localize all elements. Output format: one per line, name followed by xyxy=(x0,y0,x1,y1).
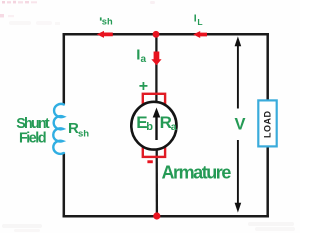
svg-text:Shunt: Shunt xyxy=(16,116,50,132)
wire top bus (63,34)-(268,34) xyxy=(63,33,269,36)
svg-text:a: a xyxy=(171,121,177,133)
svg-text:I: I xyxy=(194,13,197,25)
inductor coil Rsh (shunt field winding) xyxy=(53,104,64,154)
label minus sign xyxy=(147,160,152,163)
armature machine circle xyxy=(131,102,176,150)
wire bottom bus (63,216)-(268,216) xyxy=(63,215,269,218)
wire armature branch upper (156,34)-(156,103) xyxy=(155,34,157,104)
svg-text:a: a xyxy=(141,54,147,65)
V measurement arrow line (double headed, with gap for label) xyxy=(237,40,239,109)
svg-text:V: V xyxy=(235,115,246,133)
label Ish xyxy=(100,17,102,20)
svg-text:Armature: Armature xyxy=(162,163,232,183)
svg-text:sh: sh xyxy=(78,129,89,140)
wire left upper (64,33)-(64,104) xyxy=(63,33,66,104)
current arrow Ia (red, pointing down) xyxy=(151,52,161,66)
current arrow Ish (red, pointing left) xyxy=(97,31,113,38)
brush terminal bottom (red bracket) xyxy=(143,147,165,157)
node junction dot top xyxy=(153,31,160,38)
wire right (268,33)-(268,216) xyxy=(266,33,269,217)
svg-text:LOAD: LOAD xyxy=(263,111,273,139)
wire left lower (64,153)-(64,216) xyxy=(63,153,66,218)
svg-text:L: L xyxy=(197,17,202,27)
emf arrow inside armature xyxy=(155,115,157,140)
wire armature branch lower (157,147)-(157,216) xyxy=(156,147,158,216)
svg-text:+: + xyxy=(139,78,148,95)
svg-text:b: b xyxy=(146,121,153,133)
svg-text:Field: Field xyxy=(19,131,46,147)
node junction dot bottom xyxy=(153,212,160,219)
svg-text:sh: sh xyxy=(102,17,113,27)
current arrow IL (red, pointing left) xyxy=(193,31,207,38)
LOAD box xyxy=(258,100,276,146)
brush terminal top (red bracket) xyxy=(143,94,165,104)
